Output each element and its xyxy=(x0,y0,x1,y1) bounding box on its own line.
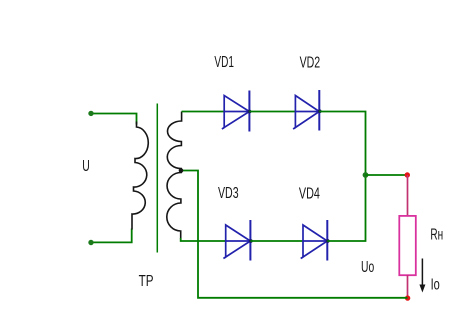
resistor RH load xyxy=(399,216,416,275)
svg-text:VD1: VD1 xyxy=(214,53,234,71)
node: input terminal bottom (green dot) xyxy=(88,240,93,245)
svg-text:VD2: VD2 xyxy=(300,53,321,70)
svg-text:Rн: Rн xyxy=(430,225,443,243)
node A junction (green dot) xyxy=(363,172,369,178)
wire: VD3 cathode to VD4 anode xyxy=(250,240,303,242)
node: input terminal top (green dot) xyxy=(88,111,93,116)
wire: load top lead (magenta) xyxy=(407,175,409,216)
wire: top-left from terminal to primary winding xyxy=(91,114,137,125)
wire: VD4 cathode up to node A xyxy=(327,175,365,241)
svg-text:VD3: VD3 xyxy=(218,184,239,201)
wire: load bottom lead (magenta) xyxy=(407,275,409,298)
wire: node A to load top xyxy=(366,174,408,176)
wire: secondary top lead to VD1 anode xyxy=(182,111,225,113)
wire: center tap to bottom rail to load bottom xyxy=(181,171,408,298)
node: load top (red dot) xyxy=(405,172,410,177)
wire: secondary bottom lead to VD3 anode xyxy=(181,238,226,241)
svg-text:Io: Io xyxy=(431,276,440,293)
svg-text:Uo: Uo xyxy=(361,258,374,276)
diode VD1 xyxy=(222,91,250,132)
node: load bottom (red dot) xyxy=(405,295,410,300)
wire: bottom-left from terminal to primary winding xyxy=(91,229,132,243)
svg-text:U: U xyxy=(82,157,90,175)
diode VD4 xyxy=(301,220,328,261)
transformer TP primary winding xyxy=(132,122,148,230)
diode VD3 xyxy=(223,220,250,261)
diode VD2 xyxy=(293,90,319,131)
svg-text:VD4: VD4 xyxy=(299,185,320,202)
wire: VD2 cathode to right corner, down to node A xyxy=(319,112,365,176)
wire: VD1 cathode to VD2 anode xyxy=(249,111,295,113)
arrow Io current direction xyxy=(421,259,423,288)
transformer TP secondary winding xyxy=(167,112,182,239)
svg-text:TP: TP xyxy=(139,272,154,289)
transformer TP core xyxy=(156,104,158,253)
node: transformer center tap (black dot) xyxy=(179,168,184,173)
